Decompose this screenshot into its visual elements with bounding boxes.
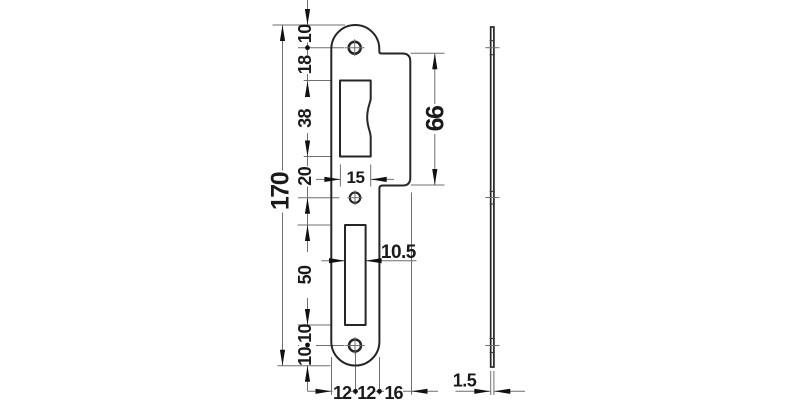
dot 12/16 xyxy=(377,389,382,394)
svg-text:18: 18 xyxy=(295,55,315,74)
arrow 10.5 left xyxy=(329,258,345,263)
text gaps (white) on chain lines xyxy=(299,26,316,43)
svg-text:16: 16 xyxy=(384,383,403,400)
extension line cutout1 bottom xyxy=(304,156,331,158)
strike plate outline (front view) xyxy=(331,25,410,366)
svg-text:10: 10 xyxy=(295,347,315,366)
arrow 10.5 right xyxy=(366,258,382,263)
extension line lip top (66) xyxy=(411,52,445,54)
screw hole bottom xyxy=(349,340,361,352)
svg-text:38: 38 xyxy=(295,109,315,128)
svg-text:15: 15 xyxy=(347,168,365,187)
side view hole edge ticks top xyxy=(490,40,495,42)
arrow 1.5 right xyxy=(494,389,510,394)
extension lines bottom chain xyxy=(331,357,333,395)
svg-text:10.5: 10.5 xyxy=(381,242,417,263)
extension line cutout2 bottom xyxy=(298,324,332,326)
screw hole top xyxy=(349,42,361,54)
arrow 1.5 left xyxy=(474,389,490,394)
side view centerline middle xyxy=(485,197,499,199)
arrow 50 bottom down xyxy=(305,309,310,325)
svg-text:12: 12 xyxy=(333,383,352,400)
extension line bottom hole center xyxy=(298,345,345,347)
extension line cutout1 top xyxy=(304,80,331,82)
10.5 dimension line xyxy=(322,260,346,262)
arrow 15 left xyxy=(324,177,340,182)
svg-text:66: 66 xyxy=(422,106,450,131)
15 dimension line xyxy=(316,178,340,180)
arrow 66 top xyxy=(432,53,437,69)
svg-text:170: 170 xyxy=(266,172,294,210)
170 dimension line xyxy=(282,25,284,366)
arrow 66 bottom xyxy=(432,169,437,185)
arrow bottom chain left xyxy=(316,389,332,394)
arrow 20 bottom up xyxy=(305,198,310,214)
dot at top hole centerline xyxy=(305,45,310,50)
arrow 170 bottom xyxy=(280,350,285,366)
deadbolt cutout (bottom rectangle) xyxy=(345,225,366,325)
dot between 10 and 10 xyxy=(305,343,310,348)
middle hole xyxy=(350,193,360,203)
arrow 170 top xyxy=(280,25,285,41)
arrow 18/38 boundary up xyxy=(305,81,310,97)
extension lines 15 xyxy=(339,165,341,187)
arrow 15 right xyxy=(371,177,387,182)
1.5 dimension line xyxy=(456,390,491,392)
bottom dimension line xyxy=(308,390,439,392)
latch cutout (top rectangle with wavy right edge) xyxy=(340,81,371,157)
svg-text:50: 50 xyxy=(295,265,315,284)
arrow 10 top xyxy=(305,9,310,25)
svg-text:20: 20 xyxy=(295,166,315,185)
side view centerline top xyxy=(485,47,499,49)
extension line plate top xyxy=(273,24,346,26)
svg-text:10: 10 xyxy=(295,24,315,43)
dot 12/12 xyxy=(353,389,358,394)
66 dimension line xyxy=(434,53,436,185)
side view plate xyxy=(491,27,494,367)
side view hole edge ticks middle xyxy=(490,190,495,192)
left dimension chain line xyxy=(307,0,309,391)
svg-text:1.5: 1.5 xyxy=(453,371,477,391)
extension line plate bottom xyxy=(278,365,331,367)
svg-text:12: 12 xyxy=(357,383,376,400)
arrow bottom chain right xyxy=(412,389,428,394)
svg-text:10: 10 xyxy=(295,324,315,343)
extension line cutout2 top xyxy=(298,224,332,226)
arrow 50 top up xyxy=(305,225,310,241)
extension line middle hole center xyxy=(298,197,340,199)
side view hole edge ticks bottom xyxy=(490,338,495,340)
arrow below plate bottom up xyxy=(305,366,310,382)
side view centerline bottom xyxy=(485,345,499,347)
extension line top hole center xyxy=(298,47,345,49)
extension line lip bottom (66) xyxy=(411,184,445,186)
arrow 38 bottom down xyxy=(305,141,310,157)
extension lines 1.5 xyxy=(490,371,492,395)
